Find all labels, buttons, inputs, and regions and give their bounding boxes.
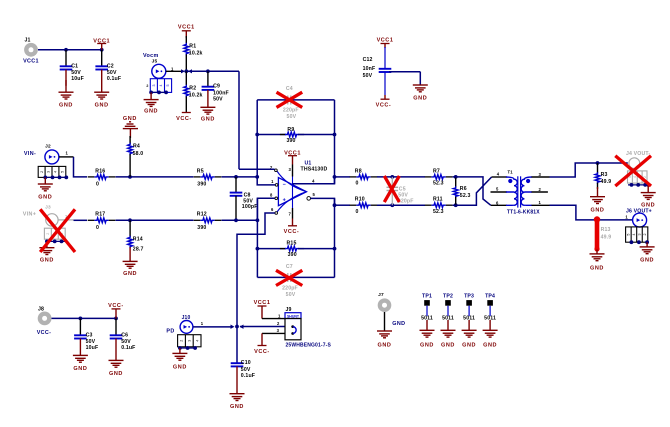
- svg-text:TP4: TP4: [485, 294, 495, 300]
- node C8 bottom: [234, 218, 238, 222]
- svg-text:GND: GND: [123, 116, 137, 122]
- svg-text:VCC-: VCC-: [376, 103, 392, 109]
- wire T1 pin1 to VOUT+: [550, 205, 633, 220]
- svg-text:GND: GND: [462, 343, 476, 349]
- svg-text:C6: C6: [121, 332, 128, 338]
- svg-text:VCC1: VCC1: [93, 38, 110, 44]
- svg-text:50V: 50V: [71, 70, 81, 76]
- svg-text:VCC1: VCC1: [284, 151, 301, 157]
- svg-text:GND: GND: [123, 271, 137, 277]
- node C3 top: [79, 317, 83, 321]
- svg-text:Vocm: Vocm: [143, 53, 159, 59]
- svg-text:50V: 50V: [107, 70, 117, 76]
- node R15 right: [333, 247, 337, 251]
- svg-text:58.0: 58.0: [133, 151, 144, 157]
- svg-text:C2: C2: [107, 63, 114, 69]
- svg-text:220pF: 220pF: [282, 285, 298, 291]
- svg-text:SHUNT: SHUNT: [287, 314, 300, 318]
- svg-text:TP3: TP3: [464, 294, 474, 300]
- svg-text:0.1uF: 0.1uF: [241, 373, 255, 379]
- svg-text:100nF: 100nF: [213, 90, 229, 96]
- svg-text:−: −: [283, 182, 286, 188]
- transformer T1 secondary winding: [521, 177, 532, 205]
- svg-text:R3: R3: [601, 172, 608, 178]
- connector J3 ghost: [46, 214, 58, 226]
- svg-text:R17: R17: [95, 212, 105, 218]
- ground right of C12: [413, 85, 428, 101]
- svg-text:C7: C7: [286, 264, 293, 270]
- node R3 top: [596, 161, 600, 165]
- svg-text:GND: GND: [38, 194, 52, 200]
- wire J5 pin1: [166, 70, 182, 72]
- header block J3 ghost: [44, 228, 65, 239]
- svg-text:VCC-: VCC-: [176, 116, 192, 122]
- node R12/pin8: [256, 218, 260, 222]
- svg-text:2: 2: [643, 234, 647, 236]
- cross-out C4: [277, 92, 303, 107]
- wire pin4 out: [293, 177, 335, 184]
- connector J5 Vocm: [152, 64, 166, 78]
- connector J8: [38, 312, 52, 326]
- transformer T1 pins left: [492, 176, 507, 178]
- svg-text:0: 0: [356, 209, 359, 215]
- power VCC- below C12: [376, 99, 392, 108]
- resistor R2: [185, 71, 187, 85]
- svg-text:390: 390: [286, 138, 295, 144]
- svg-text:50V: 50V: [398, 192, 408, 198]
- svg-text:3: 3: [188, 340, 192, 342]
- svg-text:C9: C9: [213, 84, 220, 90]
- svg-text:J2: J2: [45, 143, 51, 149]
- svg-text:TP2: TP2: [443, 294, 453, 300]
- connector J7: [378, 298, 392, 312]
- svg-text:0.1uF: 0.1uF: [107, 76, 121, 82]
- capacitor C9: [207, 71, 209, 86]
- svg-text:0: 0: [96, 182, 99, 188]
- svg-text:C1: C1: [71, 63, 78, 69]
- capacitor C3: [79, 318, 81, 335]
- ground below J7: [377, 331, 392, 349]
- ground below TP4: [483, 330, 498, 348]
- svg-text:5: 5: [166, 85, 170, 87]
- node B junction: [128, 218, 132, 222]
- svg-text:VCC-: VCC-: [108, 303, 124, 309]
- wire Vocm node to C9 and opamp: [186, 70, 239, 72]
- svg-text:2: 2: [40, 171, 44, 173]
- svg-text:GND: GND: [483, 343, 497, 349]
- resistor R17: [94, 218, 108, 223]
- cross-out R13: [595, 219, 600, 250]
- node pin4/R8: [333, 175, 337, 179]
- wire out+ crossover: [453, 177, 491, 205]
- resistor R1: [185, 36, 187, 44]
- svg-text:GND: GND: [420, 343, 434, 349]
- svg-text:390: 390: [197, 225, 206, 231]
- capacitor C4 ghost: [257, 99, 286, 101]
- transformer T1 primary winding: [506, 177, 517, 205]
- ground below TP2: [441, 330, 456, 348]
- svg-text:390: 390: [197, 182, 206, 188]
- node C9 top: [206, 69, 210, 73]
- connector J1: [24, 43, 38, 57]
- svg-text:R16: R16: [95, 168, 105, 174]
- svg-text:VCC-: VCC-: [37, 330, 52, 336]
- resistor R16: [94, 175, 108, 180]
- svg-text:GND: GND: [590, 266, 604, 272]
- ground below J2: [44, 177, 46, 184]
- wire T1 pin3 to VOUT-: [550, 163, 628, 177]
- svg-text:50V: 50V: [286, 292, 296, 298]
- capacitor C6: [115, 318, 117, 335]
- svg-text:3: 3: [152, 85, 156, 87]
- wire node A: [116, 176, 194, 178]
- wire node B: [116, 219, 194, 221]
- svg-text:J8: J8: [38, 306, 44, 312]
- svg-text:50V: 50V: [241, 367, 251, 373]
- power VCC1 above J9: [254, 300, 271, 306]
- svg-text:10uF: 10uF: [71, 76, 84, 82]
- ground below C10: [230, 394, 245, 410]
- wire pin1: [257, 177, 275, 185]
- node C6 top: [114, 317, 118, 321]
- resistor R14: [129, 220, 131, 237]
- svg-text:VIN-: VIN-: [24, 151, 36, 157]
- ground below C1: [59, 92, 74, 108]
- cross-out VIN+: [40, 209, 75, 252]
- svg-text:J7: J7: [378, 292, 384, 298]
- svg-text:GND: GND: [73, 366, 87, 372]
- wire inverting rail: [256, 100, 258, 177]
- cross-out VOUT-: [615, 156, 651, 186]
- connector J10: [180, 321, 193, 334]
- svg-text:R15: R15: [287, 241, 297, 247]
- svg-text:GND: GND: [40, 258, 54, 264]
- wire R10 to R11: [377, 204, 425, 206]
- capacitor C2: [101, 50, 103, 67]
- svg-text:52.3: 52.3: [460, 193, 471, 199]
- svg-text:PD: PD: [166, 328, 174, 334]
- resistor R3: [597, 163, 599, 173]
- wire pin2: [239, 168, 275, 170]
- node C2 top: [100, 48, 104, 52]
- capacitor C1: [65, 50, 67, 67]
- node R6 top: [454, 175, 458, 179]
- svg-text:49.9: 49.9: [601, 179, 612, 185]
- svg-text:10uF: 10uF: [86, 345, 99, 351]
- wire pin6 to PD rail: [237, 213, 275, 327]
- svg-text:T1: T1: [508, 170, 514, 175]
- node C1 top: [64, 48, 68, 52]
- resistor R5: [200, 175, 214, 180]
- svg-text:GND: GND: [377, 343, 391, 349]
- svg-text:0: 0: [96, 225, 99, 231]
- svg-text:3: 3: [638, 234, 642, 236]
- ground below C2: [94, 92, 109, 108]
- transformer T1 core: [517, 176, 519, 207]
- power VCC- above C6: [108, 303, 124, 309]
- svg-text:GND: GND: [413, 95, 427, 101]
- svg-text:10.2k: 10.2k: [189, 93, 203, 99]
- wire pin5 out: [311, 198, 335, 205]
- op-amp pin bubbles: [275, 169, 278, 172]
- svg-text:GND: GND: [109, 371, 123, 377]
- wire J9 pin3 to VCC-: [262, 332, 285, 334]
- svg-text:5: 5: [627, 234, 631, 236]
- node pin5/R10: [333, 203, 337, 207]
- svg-text:GND: GND: [392, 321, 405, 327]
- ground below J3: [46, 241, 48, 247]
- capacitor C7 ghost: [257, 276, 286, 278]
- svg-text:R14: R14: [133, 237, 143, 243]
- wire J8 rail: [52, 317, 117, 319]
- svg-text:50V: 50V: [363, 73, 373, 79]
- svg-text:J5: J5: [152, 58, 158, 64]
- svg-text:GND: GND: [95, 103, 109, 109]
- ground below J10: [179, 348, 181, 353]
- svg-text:VCC1: VCC1: [377, 38, 394, 44]
- capacitor C12: [384, 47, 386, 69]
- wire R5 to inverting rail: [222, 176, 258, 178]
- wire R12 to noninverting rail: [222, 219, 258, 221]
- svg-text:VCC-: VCC-: [284, 229, 300, 235]
- svg-text:C12: C12: [363, 57, 373, 63]
- wire J10 pin1: [193, 326, 232, 328]
- svg-text:GND: GND: [441, 343, 455, 349]
- header block J10: [178, 335, 201, 347]
- svg-text:GND: GND: [590, 208, 604, 214]
- svg-text:TP1: TP1: [422, 294, 432, 300]
- svg-text:5011: 5011: [463, 315, 475, 321]
- wire J7 to ground: [384, 312, 386, 331]
- svg-text:4: 4: [159, 85, 163, 87]
- svg-text:GND: GND: [230, 404, 244, 410]
- svg-text:R5: R5: [197, 168, 204, 174]
- svg-text:J4 VOUT-: J4 VOUT-: [626, 151, 650, 157]
- node C8 top: [234, 175, 238, 179]
- ground below R3: [590, 197, 605, 214]
- capacitor C10: [236, 327, 238, 364]
- svg-text:+: +: [283, 197, 286, 203]
- svg-text:VCC1: VCC1: [23, 59, 39, 65]
- wire noninverting rail: [256, 198, 258, 277]
- node R13 top: [595, 218, 599, 222]
- wire U1 power internal: [292, 177, 294, 209]
- svg-text:2: 2: [146, 84, 148, 88]
- svg-text:4: 4: [54, 171, 58, 173]
- wire J3 pins: [47, 240, 66, 242]
- wire bottom feedback right rail: [334, 198, 336, 277]
- svg-text:R13: R13: [601, 227, 611, 233]
- wire out- crossover: [453, 177, 492, 205]
- wire J2 to input rail: [59, 156, 74, 158]
- header block J5: [150, 79, 171, 93]
- svg-text:4: 4: [633, 176, 637, 178]
- svg-text:VCC1: VCC1: [254, 300, 271, 306]
- svg-text:3: 3: [47, 171, 51, 173]
- op-amp U1: [278, 178, 306, 206]
- svg-text:C10: C10: [241, 360, 251, 366]
- node R9 right: [333, 133, 337, 137]
- connector J2: [45, 150, 59, 164]
- svg-text:R9: R9: [287, 127, 294, 133]
- wire J1 to VCC1 rail: [38, 49, 102, 51]
- svg-text:GND: GND: [59, 103, 73, 109]
- wire PD to J9 pin2: [240, 326, 285, 328]
- svg-text:C3: C3: [86, 332, 93, 338]
- svg-text:49.9: 49.9: [601, 235, 612, 241]
- svg-text:10nF: 10nF: [363, 66, 376, 72]
- svg-text:R4: R4: [133, 144, 140, 150]
- svg-text:390: 390: [288, 252, 297, 258]
- svg-text:4: 4: [195, 340, 199, 342]
- wire VOUT- ghost pins: [628, 184, 648, 186]
- header block J6: [626, 227, 648, 242]
- power VCC- below U1: [292, 208, 294, 219]
- svg-text:50V: 50V: [121, 339, 131, 345]
- cross-out C7: [276, 270, 302, 285]
- svg-text:220pF: 220pF: [283, 108, 299, 114]
- transformer phase dots: [508, 179, 512, 183]
- svg-text:50V: 50V: [86, 339, 96, 345]
- svg-text:52.3: 52.3: [433, 180, 444, 186]
- svg-text:J1: J1: [24, 38, 30, 44]
- transformer T1 pins right: [532, 176, 550, 178]
- node R6 bottom: [454, 203, 458, 207]
- svg-text:GND: GND: [201, 117, 215, 123]
- svg-text:R11: R11: [433, 197, 443, 203]
- svg-text:5011: 5011: [442, 315, 454, 321]
- svg-text:28.7: 28.7: [133, 247, 144, 253]
- svg-text:2: 2: [180, 340, 184, 342]
- svg-text:25WHBENG01-7-S: 25WHBENG01-7-S: [286, 343, 332, 349]
- cross-out C5: [384, 176, 399, 202]
- node R15 left: [256, 247, 260, 251]
- svg-text:R6: R6: [460, 186, 467, 192]
- svg-text:R2: R2: [189, 86, 196, 92]
- svg-text:J3: J3: [45, 205, 51, 211]
- ground below TP3: [462, 330, 477, 348]
- svg-text:100pF: 100pF: [242, 204, 258, 210]
- ground below C9: [200, 107, 215, 122]
- header block J2: [38, 166, 66, 177]
- power VCC- below R2: [176, 113, 192, 122]
- resistor R10: [335, 204, 351, 206]
- node A junction: [128, 175, 132, 179]
- resistor R6: [455, 177, 457, 188]
- wire pin8: [257, 198, 275, 220]
- svg-text:50V: 50V: [287, 114, 297, 120]
- svg-text:TT1-6-KK81X: TT1-6-KK81X: [507, 210, 540, 216]
- svg-text:R1: R1: [189, 44, 196, 50]
- power VCC1 above C2: [93, 38, 110, 44]
- svg-text:R8: R8: [355, 168, 362, 174]
- resistor R4: [129, 136, 131, 144]
- svg-text:5011: 5011: [484, 315, 496, 321]
- ground below J6: [646, 242, 648, 247]
- ground below J5: [150, 92, 152, 99]
- resistor R9: [257, 134, 286, 136]
- wire R8 to R7: [377, 176, 425, 178]
- resistor R7: [431, 175, 445, 180]
- ground below C3: [73, 355, 88, 371]
- node R9 left: [255, 133, 259, 137]
- capacitor C8: [235, 177, 237, 193]
- ground below TP1: [420, 330, 435, 348]
- ground below R14: [123, 261, 138, 277]
- node R5/pin1: [255, 175, 259, 179]
- svg-text:2: 2: [46, 233, 50, 235]
- wire C12 tap to ground: [389, 71, 420, 73]
- svg-text:R7: R7: [433, 168, 440, 174]
- svg-text:J10: J10: [182, 315, 191, 321]
- svg-text:5011: 5011: [421, 315, 433, 321]
- svg-text:C4: C4: [286, 86, 293, 92]
- capacitor C5 ghost: [390, 175, 394, 179]
- node Vocm: [184, 69, 188, 73]
- svg-text:GND: GND: [144, 109, 158, 115]
- resistor R8: [335, 176, 351, 178]
- resistor R11: [431, 203, 445, 208]
- ground below R13: [590, 254, 605, 272]
- svg-text:0: 0: [356, 180, 359, 186]
- svg-text:VIN+: VIN+: [23, 211, 37, 217]
- svg-text:50V: 50V: [213, 97, 223, 103]
- wire VIN+ row: [74, 219, 88, 221]
- svg-text:VCC-: VCC-: [254, 349, 270, 355]
- svg-text:GND: GND: [173, 365, 187, 371]
- svg-text:VCC1: VCC1: [178, 25, 195, 31]
- connector J6: [633, 213, 647, 227]
- resistor R12: [200, 218, 214, 223]
- svg-text:52.3: 52.3: [433, 209, 444, 215]
- power VCC1 above C12: [377, 38, 394, 44]
- node PD: [235, 325, 239, 329]
- svg-text:5: 5: [61, 171, 65, 173]
- ground below C6: [109, 360, 124, 376]
- svg-text:0.1uF: 0.1uF: [121, 345, 135, 351]
- svg-text:4: 4: [632, 234, 636, 236]
- power VCC- below J9: [254, 346, 270, 355]
- power VCC1 above U1: [284, 151, 301, 157]
- svg-text:R10: R10: [355, 197, 365, 203]
- svg-text:R12: R12: [197, 212, 207, 218]
- ground below VOUT- ghost: [647, 185, 649, 193]
- svg-text:10.2k: 10.2k: [189, 51, 203, 57]
- wire top feedback right rail: [334, 100, 336, 184]
- svg-text:GND: GND: [640, 258, 654, 264]
- svg-text:THS4130D: THS4130D: [301, 166, 328, 172]
- power VCC1 above R1: [178, 25, 195, 31]
- resistor R15: [257, 248, 286, 250]
